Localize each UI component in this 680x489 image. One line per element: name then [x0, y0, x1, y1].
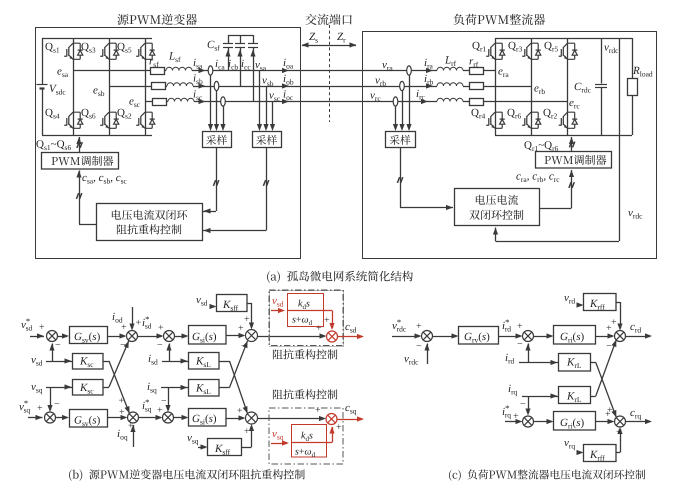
wire vrdc* into C1	[392, 336, 420, 338]
wire vsd* into sum	[30, 336, 44, 338]
rectifier leg a wire	[495, 38, 497, 135]
sampler box 1 (currents)	[203, 132, 232, 148]
block Ksc2 voltage cross coupling	[73, 380, 104, 396]
red summing junction Xd	[327, 331, 338, 342]
block Krff1 feedforward	[584, 294, 617, 311]
label impedance reconfig control d	[273, 349, 338, 359]
svg-text:+: +	[416, 321, 422, 332]
wire controller to PWM modulator	[79, 224, 96, 226]
capacitor Crdc	[601, 38, 603, 84]
transistor Qr3	[522, 43, 541, 59]
wire KsL1 cross to S4q	[219, 361, 230, 363]
red wire kd block to red sum q	[326, 442, 332, 444]
voltage sensor phase c	[393, 97, 398, 106]
arrow icc	[250, 50, 255, 57]
wire Ksff1 to S4	[247, 303, 252, 305]
block Grv dc voltage regulator	[459, 327, 499, 345]
phase c wire esc to load bridge	[145, 101, 168, 103]
vrdc sense wire	[619, 38, 621, 241]
svg-text:+: +	[517, 321, 523, 332]
svg-text:+: +	[316, 323, 322, 334]
inductor Lrf phase b	[437, 83, 463, 86]
svg-text:−: −	[416, 341, 422, 352]
wire ird to C2 and KrL1	[519, 362, 559, 364]
transistor Qs2	[136, 112, 155, 128]
phase a wire esa to load bridge	[73, 70, 166, 72]
red arrow vsq into kd block q	[271, 443, 287, 445]
wire KrL1 cross to C5	[591, 362, 596, 364]
bus slash sampler3	[397, 177, 402, 183]
block Gsv q-axis voltage regulator	[70, 410, 108, 428]
bus slash csabc	[76, 193, 81, 199]
svg-text:+: +	[605, 409, 611, 420]
summing junction S2 (iod inject)	[127, 331, 138, 342]
wire isd to S3 and KsL1	[162, 361, 189, 363]
inductor Lsf phase c	[168, 98, 194, 101]
svg-text:+: +	[37, 403, 43, 414]
PWM modulator box source	[42, 153, 119, 170]
svg-text:Gsi(s): Gsi(s)	[192, 331, 217, 345]
inverter leg a wire	[73, 38, 75, 135]
bus slash sampler1	[213, 180, 218, 186]
wire Gri2 to C5	[596, 421, 613, 423]
transistor Qs4	[64, 112, 83, 128]
block Gsv d-axis voltage regulator	[70, 327, 108, 344]
wire isq to S3q and KsL2	[161, 387, 189, 389]
resistor Rload	[632, 38, 634, 78]
block Krff2 feedforward	[584, 445, 617, 462]
inverter leg c wire	[145, 38, 147, 135]
summing junction C5 (q output)	[615, 416, 626, 427]
wire Gsv2 to S2q	[107, 417, 126, 419]
summing junction C2 (d current)	[523, 331, 534, 342]
capacitor bank top bus	[228, 35, 253, 37]
wire vsd into Ksff1	[210, 306, 215, 308]
voltage sensor drop wires to sampler	[409, 75, 411, 128]
wire irq to C3 and KrL2	[522, 396, 559, 398]
svg-text:Gsi(s): Gsi(s)	[192, 413, 217, 427]
block Ksff1 voltage feedforward	[217, 295, 248, 312]
wire S3 to Gsi1	[175, 336, 187, 338]
summing junction S1 (d voltage)	[47, 331, 58, 342]
rectifier bottom DC bus	[495, 135, 632, 137]
svg-text:+: +	[336, 422, 342, 433]
summing junction C4 (d output)	[615, 331, 626, 342]
svg-text:+: +	[616, 427, 622, 438]
current sensor phase c	[221, 97, 226, 106]
wire PWM modulator to gates	[79, 137, 81, 152]
wire load controller to PWM modulator	[539, 208, 572, 210]
inverter bottom DC bus	[42, 135, 152, 137]
red summing junction Xq	[326, 414, 337, 425]
svg-text:+: +	[244, 314, 250, 325]
block Gri1 d current regulator	[554, 326, 596, 345]
block Gsi d-axis current regulator	[189, 326, 227, 345]
wire S1q to Gsv2	[56, 417, 68, 419]
inductor Lrf phase c	[437, 98, 463, 101]
transistor Qr6	[522, 112, 541, 128]
DC source Vsdc wire	[42, 38, 44, 84]
wire vsd to Ksc1 and S1	[46, 361, 73, 363]
svg-text:Gri(s): Gri(s)	[560, 417, 585, 431]
summing junction S4 (d output)	[246, 330, 258, 342]
capacitor Csf a	[228, 35, 230, 43]
arrow Zs toward source side	[302, 45, 329, 47]
arrow ioa	[282, 68, 289, 73]
red wire kd block to red sum d	[323, 310, 332, 312]
voltage sensor phase a	[407, 66, 412, 75]
transistor Qs1	[64, 43, 83, 59]
summing junction S3 (d current)	[164, 331, 175, 342]
resistor rsf phase a	[151, 68, 165, 75]
resistor rrf phase b	[470, 83, 484, 90]
rectifier leg c wire	[567, 38, 569, 135]
transistor Qr4	[486, 112, 505, 128]
wire Ksff2 to S4q	[242, 447, 252, 449]
wire Gri1 to C4	[596, 336, 613, 338]
wire S1 to Gsv1	[58, 336, 68, 338]
wire KrL2 cross to C4	[591, 396, 596, 398]
summing junction S3q (q current)	[163, 412, 174, 423]
summing junction C3 (q current)	[523, 416, 534, 427]
wire Gsi1 to S4	[226, 335, 244, 337]
block Gsi q-axis current regulator	[189, 409, 227, 427]
phase b wire esb to load bridge	[109, 86, 167, 88]
bus slash crabc	[569, 182, 574, 188]
block kd s over s+wd (q)	[292, 425, 327, 458]
svg-text:+: +	[39, 322, 45, 333]
svg-text:+: +	[244, 426, 250, 437]
output wire crq	[626, 421, 651, 423]
wire vsq into Ksff2	[198, 447, 206, 449]
arrow icb	[237, 50, 242, 57]
arrow ira	[426, 68, 433, 73]
inductor Lrf phase a	[437, 67, 463, 70]
red arrow vsd into kd block d	[271, 310, 283, 312]
wire S4 to red sum	[258, 336, 325, 338]
red output wire csd	[338, 336, 363, 338]
node vsa tap wire	[259, 71, 261, 129]
wire Krff1 to C4	[616, 302, 620, 304]
wire S4q to red sum q	[258, 418, 325, 420]
block Ksc1 voltage cross coupling	[73, 354, 104, 370]
inductor Lsf phase b	[167, 83, 193, 86]
svg-text:+: +	[128, 421, 134, 432]
resistor rrf phase c	[470, 99, 484, 106]
svg-text:−: −	[520, 399, 526, 410]
wire vsq to Ksc2 and S1q	[46, 387, 73, 389]
controller box voltage-current dual loop impedance reconfig	[97, 204, 203, 241]
AC port dividing dashed line	[329, 25, 331, 122]
wire S2q to S3q	[139, 417, 161, 419]
svg-text:−: −	[54, 399, 60, 410]
output wire crd	[626, 336, 651, 338]
source inverter enclosure box	[36, 28, 301, 259]
wire S2 to S3	[138, 336, 162, 338]
caption (b)	[69, 469, 305, 481]
vrdc feedback wire	[496, 241, 620, 243]
svg-text:−: −	[606, 341, 612, 352]
wire Ksc1 cross to S2q	[103, 361, 109, 363]
voltage sensor phase b	[400, 81, 405, 90]
arrow iob	[282, 83, 289, 88]
sampler box 3 (load voltages)	[386, 132, 416, 148]
block Gri2 q current regulator	[554, 412, 596, 431]
block KsL1 current cross coupling	[189, 353, 220, 370]
current sensor phase a	[208, 66, 213, 75]
title load PWM rectifier	[454, 14, 545, 25]
wire Gsi2 to S4q	[226, 418, 244, 420]
wire S3q to Gsi2	[174, 417, 187, 419]
node vsc tap wire	[272, 102, 274, 129]
wire Grv to C2	[499, 336, 521, 338]
rectifier leg b wire	[531, 38, 533, 135]
wire vrd into Krff1	[578, 305, 582, 307]
impedance reconfig dash box d	[270, 291, 344, 347]
svg-text:−: −	[157, 340, 163, 351]
bus slash gates load	[569, 142, 574, 148]
inverter top DC bus	[42, 38, 152, 40]
title source PWM inverter	[117, 14, 197, 25]
svg-text:+: +	[119, 407, 125, 418]
arrow isb	[199, 83, 206, 88]
svg-text:−: −	[517, 339, 523, 350]
wire vrdc into C1	[427, 344, 429, 365]
summing junction S4q (q output)	[246, 412, 258, 424]
node vsb tap wire	[266, 86, 268, 128]
block Ksff2 voltage feedforward	[208, 439, 242, 456]
transistor Qs6	[100, 112, 119, 128]
arrow isc	[199, 99, 206, 104]
resistor rsf phase c	[153, 99, 167, 106]
DC source Vsdc battery symbol	[37, 84, 48, 86]
arrow ioc	[282, 99, 289, 104]
PWM modulator box load	[536, 152, 612, 169]
arrow ica	[225, 50, 230, 57]
current sensor drop wires to sampler	[210, 75, 212, 128]
bus slash sampler2	[263, 180, 268, 186]
wire ioq into S2q	[133, 425, 135, 447]
summing junction S1q (q voltage)	[45, 412, 56, 423]
svg-text:Gri(s): Gri(s)	[560, 331, 585, 345]
caption (c)	[449, 469, 645, 480]
svg-text:−: −	[55, 340, 61, 351]
wire C1 to Grv	[433, 336, 457, 338]
wire PWM modulator to rectifier gates	[571, 137, 573, 151]
rectifier top DC bus	[495, 38, 632, 40]
wire vsq* into S1q	[28, 417, 43, 419]
arrow isa	[199, 68, 206, 73]
svg-text:+: +	[136, 318, 142, 329]
transistor Qr1	[486, 43, 505, 59]
block kd s over s+wd (d)	[288, 294, 324, 327]
svg-text:+: +	[315, 405, 321, 416]
impedance reconfig dash box q	[269, 408, 343, 464]
wire C3 to Gri2	[534, 421, 552, 423]
svg-text:−: −	[241, 341, 247, 352]
current sensor phase b	[214, 81, 219, 90]
transistor Qr2	[559, 112, 578, 128]
svg-text:+: +	[611, 317, 617, 328]
block KsL2 current cross coupling	[189, 380, 220, 397]
block KrL2 cross coupling	[559, 387, 591, 404]
svg-text:+: +	[158, 323, 164, 334]
wire Gsv1 to S2	[107, 336, 125, 338]
wire sampler3 to load controller	[400, 147, 402, 208]
inverter leg b wire	[109, 38, 111, 135]
arrow Zr toward load side	[329, 45, 356, 47]
wire C2 to Gri1	[534, 336, 552, 338]
transistor Qr5	[559, 43, 578, 59]
wire sampler1 to controller	[216, 147, 218, 211]
transistor Qs3	[100, 43, 119, 59]
svg-text:+: +	[324, 315, 330, 326]
arrow irc	[421, 99, 428, 104]
capacitor Csf b	[240, 35, 242, 43]
block KrL1 cross coupling	[559, 354, 591, 372]
resistor rrf phase a	[470, 68, 484, 75]
wire vrq into Krff2	[578, 452, 582, 454]
controller box load voltage-current dual loop	[455, 189, 540, 226]
wire Krff2 to C5	[616, 452, 620, 454]
capacitor Csf c	[253, 35, 255, 43]
caption (a)	[267, 271, 413, 283]
svg-text:+: +	[119, 396, 125, 407]
wire sampler2 to controller	[266, 147, 268, 231]
red output wire csq	[337, 419, 362, 421]
sampler box 2 (voltages)	[253, 132, 282, 148]
svg-text:+: +	[121, 322, 127, 333]
load rectifier enclosure box	[363, 32, 657, 259]
wire irq* into C3	[505, 421, 521, 423]
summing junction C1 (dc voltage)	[422, 331, 433, 342]
transistor Qs5	[136, 43, 155, 59]
label impedance reconfig control q	[273, 389, 338, 399]
resistor rsf phase b	[152, 83, 166, 90]
svg-text:+: +	[237, 406, 243, 417]
wire Ksc2 cross to S2	[103, 387, 109, 389]
summing junction S2q (ioq inject)	[128, 412, 139, 423]
title AC port	[305, 14, 351, 25]
inductor Lsf phase a	[166, 67, 192, 70]
wire KsL2 cross to S4	[219, 387, 230, 389]
wire iod into S2	[132, 307, 134, 329]
bus slash gates source	[77, 142, 82, 148]
arrow irb	[426, 83, 433, 88]
